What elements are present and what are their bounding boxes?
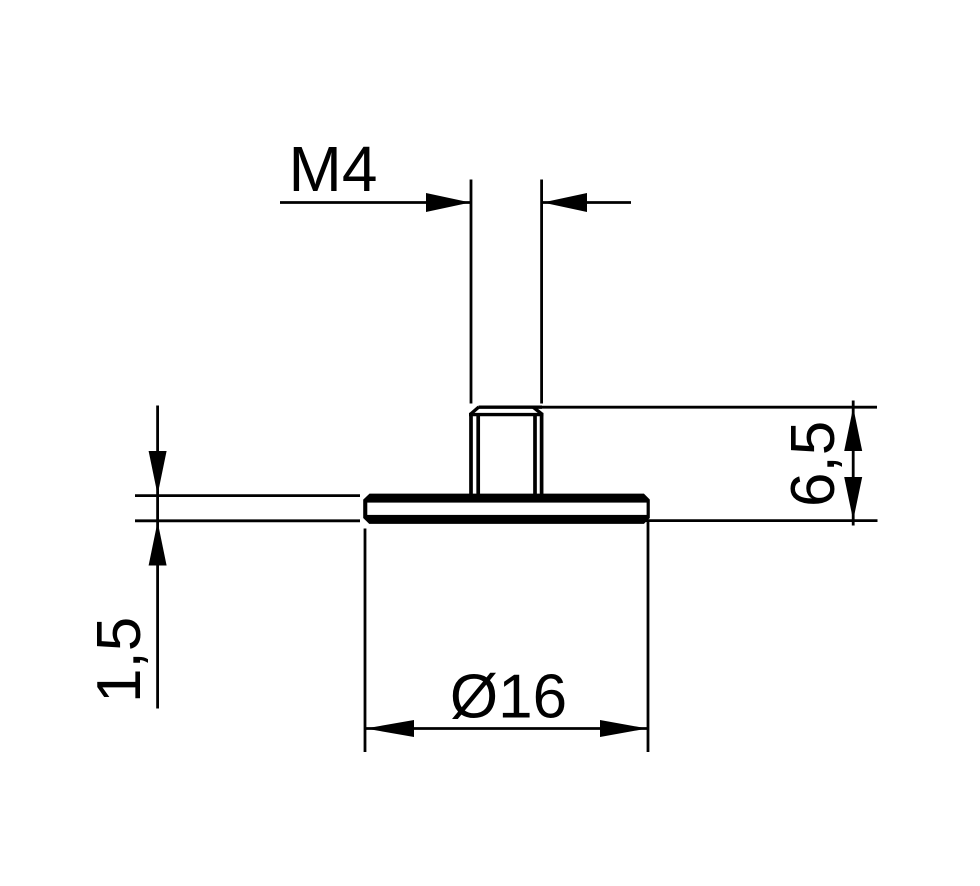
diameter arrowhead right xyxy=(600,720,648,737)
6,5 extension line top xyxy=(542,406,877,409)
diameter extension line right xyxy=(647,522,650,752)
stud thread inner left line xyxy=(476,414,480,495)
1,5 extension line top xyxy=(135,494,360,497)
M4 dimension line left tail xyxy=(280,201,470,204)
stud chamfer right diagonal xyxy=(533,407,543,415)
6,5 extension line bottom xyxy=(645,519,878,522)
svg-text:Ø16: Ø16 xyxy=(450,663,567,732)
6,5 arrowhead down xyxy=(844,477,862,520)
1,5 arrowhead down xyxy=(149,451,167,495)
flange disc outline xyxy=(363,494,650,524)
svg-text:M4: M4 xyxy=(289,133,378,205)
1,5 dimension line xyxy=(156,406,159,709)
M4 arrowhead right xyxy=(543,193,587,212)
1,5 extension line bottom xyxy=(135,519,360,522)
stud chamfer shoulder line xyxy=(469,413,544,416)
stud outer right line xyxy=(540,413,544,494)
stud thread inner right line xyxy=(533,414,537,495)
M4 extension line right xyxy=(540,180,543,404)
svg-text:6,5: 6,5 xyxy=(779,421,848,507)
diameter arrowhead left xyxy=(366,720,415,737)
diameter dimension line xyxy=(365,727,648,730)
6,5 dimension line xyxy=(852,401,855,526)
1,5 arrowhead up xyxy=(149,522,167,566)
M4 dimension line right tail xyxy=(543,201,631,204)
svg-text:1,5: 1,5 xyxy=(85,617,154,703)
M4 arrowhead left xyxy=(426,193,470,212)
stud outer left line xyxy=(469,413,473,494)
stud chamfer left diagonal xyxy=(470,407,479,415)
M4 extension line left xyxy=(470,180,473,404)
diameter extension line left xyxy=(364,529,367,753)
6,5 arrowhead up xyxy=(844,407,862,451)
stud top crest line xyxy=(479,406,543,409)
